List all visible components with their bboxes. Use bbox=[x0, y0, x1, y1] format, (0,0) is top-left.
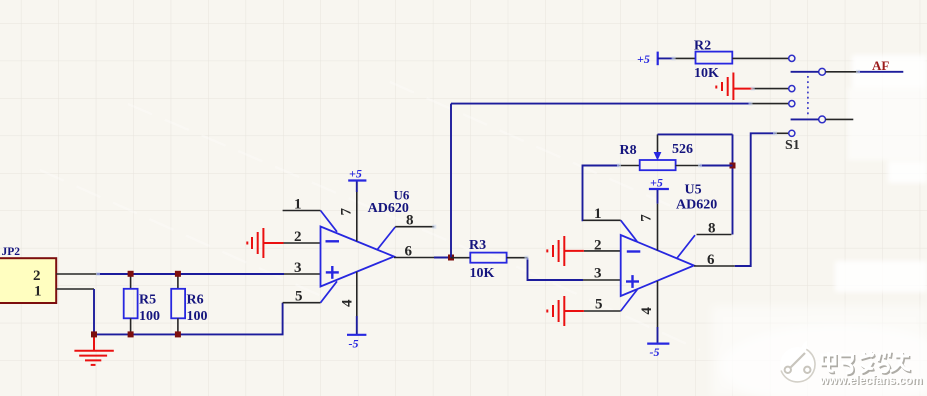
white backdrop patches bbox=[712, 55, 927, 396]
JP2 pin 1 stub bbox=[56, 288, 94, 290]
svg-text:AF: AF bbox=[872, 58, 889, 73]
switch S1 bbox=[785, 55, 903, 153]
svg-text:+5: +5 bbox=[637, 52, 650, 66]
power +5 (R2) bbox=[637, 52, 674, 66]
svg-text:2: 2 bbox=[33, 268, 41, 284]
power -5 (U5) bbox=[647, 327, 669, 359]
ground AGND-U6pin2 bbox=[247, 228, 283, 258]
junction at R5 bottom bbox=[128, 331, 134, 337]
resistor R2 bbox=[674, 39, 789, 82]
U5 pin 8 bbox=[677, 235, 695, 258]
svg-text:7: 7 bbox=[639, 214, 655, 222]
svg-text:R6: R6 bbox=[187, 293, 204, 308]
elecfans logo circle bbox=[780, 341, 815, 383]
power +5 (U5) bbox=[649, 176, 669, 204]
svg-text:R2: R2 bbox=[694, 39, 711, 54]
JP2 pin 2 stub bbox=[56, 273, 97, 275]
U5 minus bbox=[627, 250, 641, 252]
wire vertical to S1 row3 bbox=[450, 104, 452, 258]
junction at ground node bbox=[91, 331, 97, 337]
ground AGND-S1row2 bbox=[716, 73, 752, 101]
svg-text:AD620: AD620 bbox=[368, 201, 409, 216]
node U6 output junction bbox=[448, 255, 454, 261]
wire bottom bus bbox=[94, 303, 283, 335]
S1 common1 stub left bbox=[791, 71, 819, 73]
svg-text:7: 7 bbox=[338, 208, 354, 216]
node R8 junction bbox=[730, 163, 736, 169]
U5 pin 4 bbox=[657, 281, 659, 327]
svg-text:100: 100 bbox=[139, 309, 160, 324]
resistor R6 bbox=[171, 274, 207, 335]
wire R8 wiper to junction bbox=[658, 133, 733, 135]
junction at R6 bottom bbox=[175, 331, 181, 337]
wire long horizontal to S1 bbox=[451, 103, 751, 105]
svg-text:-5: -5 bbox=[650, 345, 660, 359]
resistor R5 bbox=[124, 274, 160, 335]
wire JP2.1 down bbox=[93, 289, 95, 334]
svg-text:R3: R3 bbox=[469, 238, 486, 253]
svg-text:-5: -5 bbox=[349, 337, 359, 351]
svg-text:R5: R5 bbox=[139, 293, 156, 308]
power +5 (U6) bbox=[348, 167, 366, 193]
ground AGND-U5pin2 bbox=[547, 236, 584, 266]
U6 plus bbox=[326, 266, 339, 279]
wire R8 left to U5.1 bbox=[583, 166, 620, 221]
svg-text:www.elecfans.com: www.elecfans.com bbox=[819, 375, 922, 387]
svg-text:+5: +5 bbox=[650, 176, 663, 190]
R8 wiper arrow bbox=[654, 152, 662, 161]
svg-text:4: 4 bbox=[639, 307, 655, 315]
op-amp U6 bbox=[247, 167, 434, 351]
svg-text:10K: 10K bbox=[470, 266, 495, 281]
svg-text:3: 3 bbox=[594, 266, 602, 282]
wire U6.6 to junction bbox=[434, 257, 451, 259]
U6 pin 4 bbox=[356, 272, 358, 316]
U5 pin 6 bbox=[694, 265, 735, 267]
U6 triangle body bbox=[321, 227, 395, 287]
电子发烧友 stylized glyphs bbox=[823, 353, 911, 375]
S1 left contacts bbox=[789, 55, 795, 136]
S1 gang dotted line bbox=[807, 76, 809, 115]
svg-text:U5: U5 bbox=[685, 182, 702, 197]
svg-text:R8: R8 bbox=[620, 143, 637, 158]
svg-text:AD620: AD620 bbox=[676, 197, 717, 212]
U6 pin 6 bbox=[394, 257, 434, 259]
svg-text:6: 6 bbox=[405, 244, 413, 260]
svg-text:4: 4 bbox=[339, 299, 355, 307]
op-amp U5 bbox=[547, 176, 735, 360]
U5 triangle body bbox=[621, 235, 694, 296]
wire net JP2.2 to U6.3 bbox=[97, 273, 284, 275]
svg-text:S1: S1 bbox=[785, 138, 800, 153]
wire R3 to U5.3 bbox=[528, 258, 584, 280]
potentiometer R8 bbox=[619, 134, 733, 170]
wire U5.6 to S1 row4 bbox=[735, 133, 775, 266]
U6 pin 7 bbox=[356, 192, 358, 241]
junction at R5 top bbox=[128, 271, 134, 277]
svg-text:+5: +5 bbox=[349, 167, 362, 181]
svg-text:5: 5 bbox=[595, 297, 603, 313]
S1 common2 stub left bbox=[791, 118, 819, 120]
svg-text:6: 6 bbox=[707, 252, 715, 268]
svg-text:526: 526 bbox=[672, 142, 693, 157]
junction at R6 top bbox=[175, 271, 181, 277]
faint diagonal white streaks bbox=[40, 82, 700, 350]
U6 pin 8 bbox=[378, 227, 396, 249]
U6 minus bbox=[326, 240, 340, 242]
svg-text:8: 8 bbox=[708, 221, 716, 237]
ground AGND-U5pin5 bbox=[547, 296, 584, 326]
power -5 (U6) bbox=[347, 316, 366, 351]
resistor R3 bbox=[451, 238, 528, 281]
S1 common contacts bbox=[819, 68, 826, 122]
wire U5.8 up to R8 junction bbox=[732, 134, 734, 234]
connector JP2 bbox=[0, 246, 56, 303]
wire AF bbox=[826, 71, 859, 73]
U5 plus bbox=[626, 275, 639, 288]
svg-text:1: 1 bbox=[34, 284, 42, 300]
dangling wire end markers bbox=[96, 56, 860, 276]
U5 pin 7 bbox=[657, 204, 659, 251]
svg-text:JP2: JP2 bbox=[2, 246, 21, 258]
ground GND1 bbox=[74, 334, 113, 365]
svg-text:100: 100 bbox=[187, 309, 208, 324]
svg-text:10K: 10K bbox=[694, 66, 719, 81]
